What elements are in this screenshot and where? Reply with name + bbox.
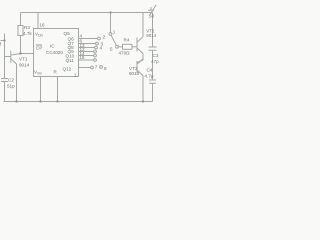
wire input stub: [1, 40, 5, 42]
power switch S0 arrowhead: [155, 5, 156, 6]
node VT1 emitter ground: [15, 100, 17, 102]
svg-text:CP: CP: [36, 46, 42, 51]
svg-text:7: 7: [95, 65, 98, 70]
wire Q8 pin 13: [79, 47, 95, 49]
node R ground: [56, 100, 58, 102]
svg-text:CC4020: CC4020: [46, 50, 63, 55]
switch S contact 3: [96, 42, 99, 45]
wire Q12 pin 1: [79, 67, 91, 69]
switch S contact 6: [94, 54, 97, 57]
capacitor C2: [1, 79, 8, 82]
wire switch position 1 drop: [110, 13, 112, 33]
svg-text:8: 8: [104, 66, 107, 71]
svg-text:9014: 9014: [146, 33, 156, 38]
wire R4 to VT2 base: [132, 46, 137, 48]
svg-text:S0: S0: [149, 14, 155, 19]
transistor VT3: [137, 59, 143, 102]
switch S contact 7b: [94, 59, 97, 62]
node switch rail junction: [109, 11, 111, 13]
svg-text:Q5: Q5: [64, 31, 71, 36]
wire left rail: [4, 34, 6, 79]
svg-text:51p: 51p: [7, 84, 15, 89]
node R3/CP junction: [19, 52, 21, 54]
resistor R3: [18, 26, 23, 36]
wire VT1 base: [5, 56, 11, 58]
svg-text:C2: C2: [8, 78, 14, 83]
wire R reset pin 11: [57, 77, 59, 102]
wire VSS pin 8: [40, 77, 42, 102]
wire left rail lower: [4, 82, 6, 102]
wire bottom rail: [4, 101, 153, 103]
wire Q10 pin 14: [79, 55, 94, 57]
switch S common: [116, 45, 119, 48]
capacitor C4: [149, 80, 156, 83]
wire Q7 pin 6: [79, 43, 96, 45]
svg-text:R4: R4: [124, 38, 130, 43]
label CP overline: [36, 44, 42, 46]
wire Q6 pin 4: [79, 38, 98, 40]
IC U1 box: [34, 29, 79, 77]
svg-text:4: 4: [100, 46, 103, 51]
svg-text:1: 1: [113, 30, 116, 35]
VT2 emitter arrow: [141, 52, 143, 54]
wire VDD pin 16: [37, 13, 39, 29]
power switch S0: [148, 5, 156, 14]
node VT3 emitter ground: [142, 100, 144, 102]
svg-text:IC: IC: [50, 44, 55, 49]
wire Q9 pin 12: [79, 51, 94, 53]
wire top rail: [21, 12, 153, 14]
svg-text:C3: C3: [153, 53, 159, 58]
resistor R4: [123, 44, 133, 49]
svg-text:VT1: VT1: [19, 57, 28, 62]
wire right rail middle: [152, 50, 154, 79]
svg-text:9013: 9013: [129, 71, 140, 76]
switch S contact 2: [98, 37, 101, 40]
svg-text:47p: 47p: [151, 59, 159, 64]
svg-text:C4: C4: [147, 68, 153, 73]
capacitor C3: [149, 47, 157, 50]
wire Q11 pin 15: [79, 59, 94, 61]
node input junction: [3, 39, 5, 41]
wire right rail upper: [152, 13, 154, 47]
transistor VT1: [11, 51, 21, 102]
VT1 emitter arrow: [15, 62, 17, 64]
transistor VT2: [137, 13, 143, 63]
svg-text:R3: R3: [24, 25, 30, 30]
VT3 emitter arrow: [141, 74, 143, 76]
wire common to R4: [119, 46, 123, 48]
svg-text:15: 15: [80, 55, 86, 60]
node VSS ground: [39, 100, 41, 102]
switch S contact 4: [95, 46, 98, 49]
svg-text:4.7μ: 4.7μ: [145, 74, 154, 79]
switch S wiper: [111, 36, 116, 46]
svg-text:Q11: Q11: [66, 58, 75, 63]
svg-text:4.7k: 4.7k: [23, 31, 32, 36]
svg-text:S: S: [110, 47, 113, 52]
wire right rail lower: [152, 83, 154, 101]
switch S contact 7: [91, 66, 94, 69]
svg-text:Q12: Q12: [63, 67, 72, 72]
switch S contact 5: [94, 50, 97, 53]
switch S contact 1: [109, 33, 112, 36]
wire R3 top drop: [20, 13, 22, 26]
svg-text:9014: 9014: [19, 63, 30, 68]
wire node to CP pin: [21, 53, 34, 55]
svg-text:2: 2: [103, 35, 106, 40]
wire R3 bottom to node: [20, 36, 22, 54]
svg-text:16: 16: [40, 23, 46, 28]
svg-text:470Ω: 470Ω: [119, 51, 131, 56]
svg-text:1: 1: [74, 73, 77, 78]
switch S contact 8: [100, 66, 103, 69]
